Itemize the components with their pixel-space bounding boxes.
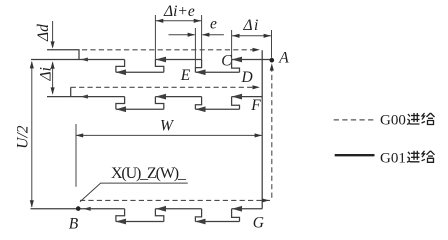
dimension Δi+e line: [155, 20, 201, 22]
pass 1 cut path: [31, 50, 272, 74]
dimension Δd arrow line: [52, 21, 54, 47]
dimension Δi top line: [232, 35, 272, 37]
extension line Δi+e right: [201, 15, 203, 60]
svg-text:C: C: [221, 53, 232, 70]
Δi top dim arrows: [232, 34, 239, 38]
legend G01 solid sample: [335, 154, 375, 156]
hanzi 进 (legend row 2): [407, 151, 420, 163]
rapid arrow pass1: [253, 48, 260, 52]
dimension and extension lines: [32, 15, 272, 207]
dimension U/2 line: [31, 62, 33, 207]
rapid arrow pass3: [262, 198, 269, 202]
svg-text:e: e: [210, 15, 217, 32]
retract jog pass1: [47, 50, 79, 60]
e dim arrows: [188, 33, 195, 37]
wire upper row left segment: [47, 96, 125, 98]
rapid arrow up to A: [270, 63, 274, 70]
Δd dim arrow: [51, 41, 55, 48]
svg-text:Δi: Δi: [243, 17, 260, 34]
dimension Δi left line: [52, 63, 54, 94]
G00 rapid dashed lines: [71, 50, 272, 201]
extension line W left: [75, 124, 77, 187]
vertical start line: [261, 50, 263, 209]
svg-text:B: B: [69, 215, 79, 230]
svg-text:E: E: [180, 67, 191, 84]
svg-text:U/2: U/2: [14, 125, 31, 149]
dashed rapid pass3: [80, 199, 270, 201]
retract jog pass2: [70, 87, 72, 96]
legend G00 dashed sample: [334, 119, 376, 121]
dimension e left leader: [169, 34, 195, 36]
dashed rapid pass1: [82, 49, 257, 51]
W dim arrows: [76, 133, 83, 137]
hanzi 给 (legend row 1): [422, 113, 435, 125]
Δi left dim arrows: [51, 61, 55, 68]
dimension e right leader: [202, 34, 224, 36]
svg-text:G01: G01: [380, 151, 406, 167]
svg-text:G00: G00: [380, 113, 406, 129]
dimension W line: [76, 134, 262, 136]
Δi+e dim arrows: [156, 19, 163, 23]
dashed vertical return to A: [271, 67, 273, 201]
extension line e left: [194, 28, 196, 67]
svg-text:A: A: [278, 49, 289, 66]
svg-text:X(U)_Z(W)_: X(U)_Z(W)_: [111, 165, 187, 182]
extension line Δi top left: [231, 30, 233, 60]
rapid arrow pass2: [253, 85, 260, 89]
node B: [76, 206, 81, 211]
extension line Δi top right: [271, 30, 273, 58]
svg-text:Δi+e: Δi+e: [163, 3, 195, 20]
svg-text:Δi: Δi: [38, 67, 55, 81]
wire upper row left segment: [31, 59, 125, 61]
dashed rapid pass2: [71, 86, 257, 88]
U/2 dim arrows: [30, 61, 34, 68]
node A: [270, 58, 275, 63]
svg-text:W: W: [160, 117, 175, 134]
svg-text:Δd: Δd: [35, 24, 52, 42]
svg-text:F: F: [250, 97, 261, 114]
extension line Δi+e left: [154, 15, 156, 60]
leader line X(U)Z(W): [80, 183, 188, 202]
svg-text:D: D: [241, 69, 253, 86]
wire upper row left segment: [31, 208, 125, 210]
hanzi 进 (legend row 1): [407, 113, 420, 125]
pass 3 cut path: [31, 207, 263, 224]
svg-text:G: G: [253, 215, 264, 230]
wire to node A: [262, 59, 272, 61]
pass 2 cut path: [47, 87, 262, 111]
hanzi 给 (legend row 2): [422, 151, 435, 163]
